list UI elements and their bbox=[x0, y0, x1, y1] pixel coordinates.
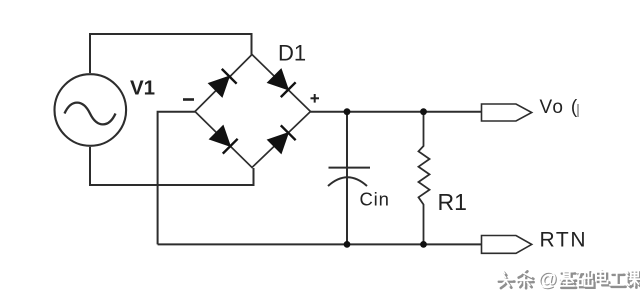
AC source V1 bbox=[55, 74, 127, 146]
diode D1 bottom-left bbox=[209, 125, 238, 154]
junction node capacitor top bbox=[344, 108, 351, 115]
diode D1 bottom-right bbox=[267, 125, 296, 154]
junction node capacitor bottom bbox=[344, 241, 351, 248]
wire top: V1 top to bridge top vertex bbox=[90, 34, 252, 73]
svg-text:V1: V1 bbox=[130, 77, 155, 100]
wire: V1 bottom to bridge bottom vertex bbox=[90, 147, 254, 185]
resistor R1 bbox=[419, 112, 430, 245]
connector tag Vo bbox=[482, 104, 532, 121]
wire: top rail bridge right vertex to Vo connector bbox=[311, 111, 482, 113]
watermark 头条 @基础电工课 bbox=[497, 268, 640, 291]
svg-text:Vo (: Vo ( bbox=[540, 97, 579, 118]
svg-text:R1: R1 bbox=[438, 189, 467, 215]
junction node resistor bottom bbox=[420, 241, 427, 248]
wire: bottom rail to RTN connector bbox=[158, 243, 481, 245]
svg-text:D1: D1 bbox=[278, 41, 306, 66]
plus polarity label bbox=[311, 94, 320, 103]
diode D1 top-left bbox=[208, 69, 237, 98]
wire: bridge left vertex to left drop bbox=[158, 112, 195, 245]
faint cropped character fragment after Vo ( bbox=[577, 104, 579, 117]
svg-text:Cin: Cin bbox=[360, 189, 390, 210]
minus polarity label bbox=[183, 98, 194, 101]
junction node resistor top bbox=[420, 108, 427, 115]
connector tag RTN bbox=[482, 236, 532, 254]
svg-text:RTN: RTN bbox=[540, 229, 588, 252]
bridge diamond wires D1 bbox=[195, 55, 311, 168]
svg-text:@: @ bbox=[538, 268, 558, 290]
capacitor Cin bbox=[328, 112, 370, 245]
diode D1 top-right bbox=[267, 69, 296, 98]
